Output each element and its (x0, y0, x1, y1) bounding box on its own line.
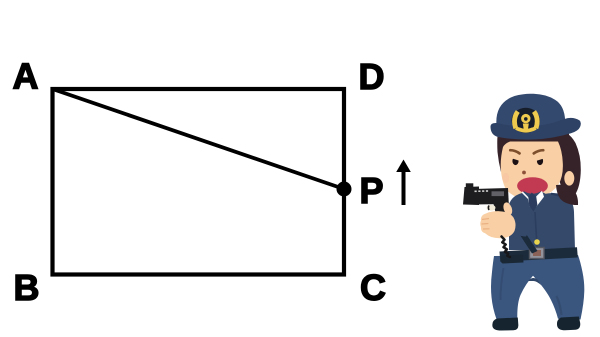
epaulette (551, 194, 569, 198)
cord coil (502, 237, 510, 258)
svg-text:C: C (360, 267, 386, 308)
hat dome (496, 94, 565, 128)
hair right lock (550, 128, 581, 198)
hat emblem gold wreath (514, 112, 537, 131)
hair left lock (497, 136, 511, 172)
hat brim (491, 118, 581, 140)
mouth (517, 177, 548, 194)
gold button (534, 239, 540, 245)
police officer illustration (463, 94, 584, 331)
eye left (512, 157, 518, 165)
thumb over grip (502, 201, 514, 216)
gun body (473, 188, 509, 205)
nose (522, 171, 526, 175)
cheek blush left (502, 173, 509, 183)
jacket front seam (535, 212, 537, 247)
eyebrow right (534, 150, 543, 153)
hat emblem patch (512, 108, 540, 133)
pants (491, 255, 584, 320)
pants fold left (501, 268, 504, 300)
hand under grip (480, 211, 515, 238)
hair under brim (499, 133, 569, 160)
hat emblem center (521, 114, 530, 123)
belt (500, 247, 578, 261)
svg-text:P: P (360, 170, 384, 211)
shoulder strap (513, 220, 538, 254)
gun grip (494, 203, 509, 219)
point P dot (337, 182, 352, 197)
right shoe (557, 317, 580, 331)
svg-text:B: B (14, 267, 40, 308)
arrow up next to P (396, 160, 411, 206)
torso jacket (509, 191, 575, 250)
tie (528, 193, 537, 212)
left shoe (492, 318, 518, 331)
belt buckle (530, 248, 545, 259)
eyebrow left (510, 150, 519, 153)
collar white (521, 191, 545, 207)
svg-text:A: A (13, 56, 39, 97)
hair over right shoulder (556, 185, 578, 205)
pants crotch shade (528, 278, 541, 285)
svg-text:D: D (359, 56, 385, 97)
gun trigger oval (487, 205, 496, 211)
gun slide ticks (475, 190, 489, 192)
eye right (537, 157, 543, 165)
belt loose end (501, 255, 524, 264)
arm sleeve (508, 193, 534, 237)
gun front block (463, 187, 479, 206)
gun sight (466, 183, 474, 188)
pants fold right (557, 296, 562, 315)
rectangle ABCD (53, 89, 345, 275)
diagonal AP (53, 89, 345, 189)
gun gray panel (492, 191, 505, 196)
ear right (564, 171, 574, 186)
face (501, 142, 563, 199)
